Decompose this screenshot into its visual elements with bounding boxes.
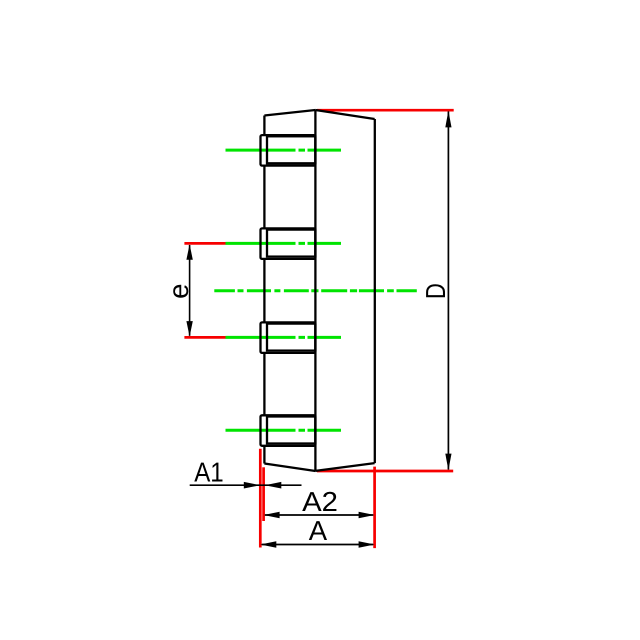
red tick e lower — [184, 336, 225, 339]
stud 2 collar — [261, 228, 316, 259]
stud 2 body — [267, 230, 315, 257]
svg-text:A1: A1 — [194, 457, 224, 488]
stud 4 body — [267, 417, 315, 444]
red extension line A left — [259, 449, 262, 548]
dimension line A1 (arrows outside) — [190, 482, 302, 489]
main axis center line — [214, 289, 416, 292]
dimension line e — [186, 244, 192, 336]
body outline — [264, 110, 374, 471]
bottom left slant edge — [264, 464, 315, 472]
stud 3 body — [267, 324, 315, 351]
red tick e upper — [184, 242, 225, 245]
front face edge — [314, 110, 316, 471]
bottom right slant edge — [315, 463, 374, 471]
svg-text:D: D — [420, 283, 451, 299]
left face edge segments between studs — [263, 116, 265, 464]
stud 3 collar — [261, 322, 316, 353]
back face edge — [374, 119, 376, 463]
center line stud 4 — [226, 429, 342, 432]
svg-text:A2: A2 — [302, 486, 338, 517]
center line stud 2 — [226, 242, 342, 245]
center line stud 1 — [226, 149, 342, 152]
dimension line A2 — [264, 512, 375, 519]
red extension line A / A2 right — [373, 467, 376, 548]
top right slant edge — [315, 110, 374, 119]
red extension line bottom (D lower reference) — [317, 470, 453, 473]
red extension line top (D upper reference) — [317, 109, 454, 112]
svg-text:e: e — [163, 284, 194, 299]
stud 1 body — [267, 136, 315, 163]
red extension line A2 left — [262, 467, 265, 521]
stud 4 collar — [261, 415, 316, 446]
stud 1 collar — [261, 135, 316, 166]
top left slant edge — [264, 110, 315, 116]
dimension line D — [445, 111, 451, 471]
center line stud 3 — [226, 336, 342, 339]
svg-text:A: A — [309, 515, 328, 546]
dimension line A — [260, 541, 374, 548]
